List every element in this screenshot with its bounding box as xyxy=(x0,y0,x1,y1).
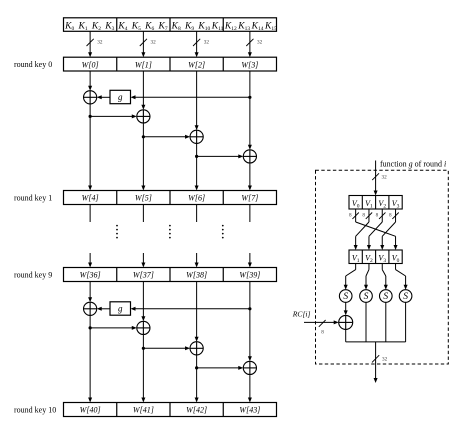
wire w3 junction to g-box G1 xyxy=(131,95,252,99)
xor X7 xyxy=(190,342,203,355)
xor X2 xyxy=(137,110,150,123)
wire stub into round key 9 column 3 xyxy=(248,253,252,268)
svg-text:W[41]: W[41] xyxy=(133,406,154,415)
svg-text:function g of round i: function g of round i xyxy=(380,160,446,169)
xor X6 xyxy=(137,321,150,334)
wire stub into round key 9 column 0 xyxy=(88,253,92,268)
wire column2 into xor X3 xyxy=(195,71,199,130)
svg-text:32: 32 xyxy=(204,40,210,46)
wire stub below round key 1 column 0 xyxy=(89,205,91,223)
svg-text:W[5]: W[5] xyxy=(135,194,152,203)
wire column3 into xor X4 xyxy=(248,71,252,150)
svg-text:S: S xyxy=(403,292,408,302)
S-box S4 xyxy=(399,290,412,303)
wire S-box S1 output into xor X9 xyxy=(344,302,348,315)
wire stub into round key 9 column 2 xyxy=(195,253,199,268)
wire input to function g with 32-bit slash xyxy=(372,161,387,196)
wire function g output with 32-bit slash xyxy=(372,342,388,383)
wire xor X9 output to merge bus xyxy=(345,329,347,342)
junction column2 feed to xor X4 xyxy=(195,154,243,158)
wire rotate byte 0 to position 3 xyxy=(356,222,398,250)
svg-text:W[36]: W[36] xyxy=(80,271,101,280)
wire key column 1 to W[1] with 32-bit slash xyxy=(140,31,156,57)
svg-text:round key 10: round key 10 xyxy=(14,406,56,415)
svg-text:round key 0: round key 0 xyxy=(14,60,52,69)
wire column3 below xor X4 into round key box xyxy=(248,163,252,191)
wire key column 3 to W[3] with 32-bit slash xyxy=(246,31,262,57)
wire g-box G2 output into xor X5 xyxy=(97,307,110,311)
wire column1 into xor X2 xyxy=(141,71,145,110)
junction column0 feed to xor X6 xyxy=(89,326,137,330)
wire rotate byte 1 to position 0 xyxy=(354,222,369,250)
g-box G2 xyxy=(110,302,131,315)
wire column2 into xor X7 xyxy=(195,282,199,342)
svg-text:8: 8 xyxy=(349,213,352,219)
wire wX5b column0 below xor X5 into round key box xyxy=(88,315,92,402)
svg-text:S: S xyxy=(343,292,348,302)
xor X5 xyxy=(84,302,97,315)
svg-text:S: S xyxy=(364,292,369,302)
wire g-box G1 output into xor X1 xyxy=(97,95,110,99)
svg-text:32: 32 xyxy=(97,40,103,46)
box round key 1 W[4]-W[7] xyxy=(64,191,277,205)
S-box S3 xyxy=(380,290,393,303)
junction column2 feed to xor X8 xyxy=(195,366,243,370)
S-box S2 xyxy=(360,290,373,303)
svg-text:W[0]: W[0] xyxy=(82,60,99,69)
svg-text:8: 8 xyxy=(389,213,392,219)
wire rotated byte 1 into S-box S2 xyxy=(364,264,369,290)
ellipsis dots column 2 xyxy=(222,225,224,239)
wire rotate byte 3 to position 2 xyxy=(380,222,395,250)
svg-text:RC[i]: RC[i] xyxy=(292,310,311,319)
wire key column 2 to W[2] with 32-bit slash xyxy=(193,31,209,57)
ellipsis dots column 0 xyxy=(116,225,118,239)
svg-text:W[37]: W[37] xyxy=(133,271,154,280)
box round key 9 W[36]-W[39] xyxy=(64,268,277,282)
wire wX1b column0 below xor X1 into round key box xyxy=(88,104,92,191)
svg-text:8: 8 xyxy=(362,213,365,219)
svg-text:g: g xyxy=(118,92,123,102)
wire S-box S3 output to merge bus xyxy=(385,302,387,342)
svg-text:W[1]: W[1] xyxy=(135,60,152,69)
wire RC[i] into xor X9 with 8-bit slash xyxy=(304,320,339,336)
svg-text:W[4]: W[4] xyxy=(82,194,99,203)
wire wX5a column0 into XOR X5 xyxy=(88,282,92,303)
xor X9 round constant addition xyxy=(339,315,353,329)
dashed boundary of function g xyxy=(316,170,449,364)
wire column3 into xor X8 xyxy=(248,282,252,362)
xor X1 xyxy=(84,91,97,104)
svg-text:W[39]: W[39] xyxy=(239,271,260,280)
svg-text:W[38]: W[38] xyxy=(186,271,207,280)
wire column2 below xor X3 into round key box xyxy=(195,143,199,190)
wire w3 junction to g-box G2 xyxy=(131,307,252,311)
wire column3 below xor X8 into round key box xyxy=(248,375,252,403)
wire byte stub 2 below V word with 8-bit slash xyxy=(376,209,386,222)
svg-text:32: 32 xyxy=(382,357,388,363)
wire rotated byte 3 into S-box S4 xyxy=(396,264,408,290)
merge bus line xyxy=(346,341,406,343)
wire S-box S4 output to merge bus xyxy=(405,302,407,342)
xor X3 xyxy=(190,130,203,143)
box V0 V1 V2 V3 input word xyxy=(349,196,402,210)
svg-text:32: 32 xyxy=(150,40,156,46)
svg-text:32: 32 xyxy=(257,40,263,46)
box round key 0 W[0]-W[3] xyxy=(64,57,277,71)
wire column2 below xor X7 into round key box xyxy=(195,355,199,403)
xor X8 xyxy=(243,361,256,374)
wire wX1a column0 into XOR X1 xyxy=(88,71,92,91)
svg-text:S: S xyxy=(383,292,388,302)
junction column1 feed to xor X7 xyxy=(142,346,190,350)
wire column1 below xor X2 into round key box xyxy=(141,123,145,191)
junction column1 feed to xor X3 xyxy=(142,135,190,139)
wire rotated byte 2 into S-box S3 xyxy=(382,264,388,290)
wire key column 0 to W[0] with 32-bit slash xyxy=(87,31,103,57)
wire stub below round key 1 column 2 xyxy=(196,205,198,223)
wire stub into round key 9 column 1 xyxy=(141,253,145,268)
junction column0 feed to xor X2 xyxy=(89,114,137,118)
xor X4 xyxy=(243,150,256,163)
wire rotated byte 0 into S-box S1 xyxy=(344,264,356,290)
wire column1 below xor X6 into round key box xyxy=(141,335,145,403)
svg-text:W[7]: W[7] xyxy=(241,194,258,203)
svg-text:W[6]: W[6] xyxy=(188,194,205,203)
g-box G1 xyxy=(110,90,131,103)
svg-text:W[40]: W[40] xyxy=(80,406,101,415)
wire byte stub 3 below V word with 8-bit slash xyxy=(389,209,399,222)
box key bytes K0-K15 xyxy=(64,18,278,32)
box round key 10 W[40]-W[43] xyxy=(64,403,277,417)
svg-text:W[3]: W[3] xyxy=(241,60,258,69)
svg-text:8: 8 xyxy=(376,213,379,219)
wire S-box S2 output to merge bus xyxy=(365,302,367,342)
wire byte stub 0 below V word with 8-bit slash xyxy=(349,209,359,222)
wire rotate byte 2 to position 1 xyxy=(367,222,382,250)
wire stub below round key 1 column 3 xyxy=(249,205,251,223)
svg-text:32: 32 xyxy=(382,175,388,181)
svg-text:round key 1: round key 1 xyxy=(14,194,52,203)
ellipsis dots column 1 xyxy=(169,225,171,239)
svg-text:W[42]: W[42] xyxy=(186,406,207,415)
svg-text:g: g xyxy=(118,304,123,314)
wire column1 into xor X6 xyxy=(141,282,145,322)
wire stub below round key 1 column 1 xyxy=(142,205,144,223)
svg-text:8: 8 xyxy=(321,330,324,336)
box V1 V2 V3 V0 rotated word xyxy=(349,250,402,264)
svg-text:W[43]: W[43] xyxy=(239,406,260,415)
svg-text:W[2]: W[2] xyxy=(188,60,205,69)
svg-text:round key 9: round key 9 xyxy=(14,271,52,280)
wire byte stub 1 below V word with 8-bit slash xyxy=(362,209,372,222)
S-box S1 xyxy=(339,290,352,303)
